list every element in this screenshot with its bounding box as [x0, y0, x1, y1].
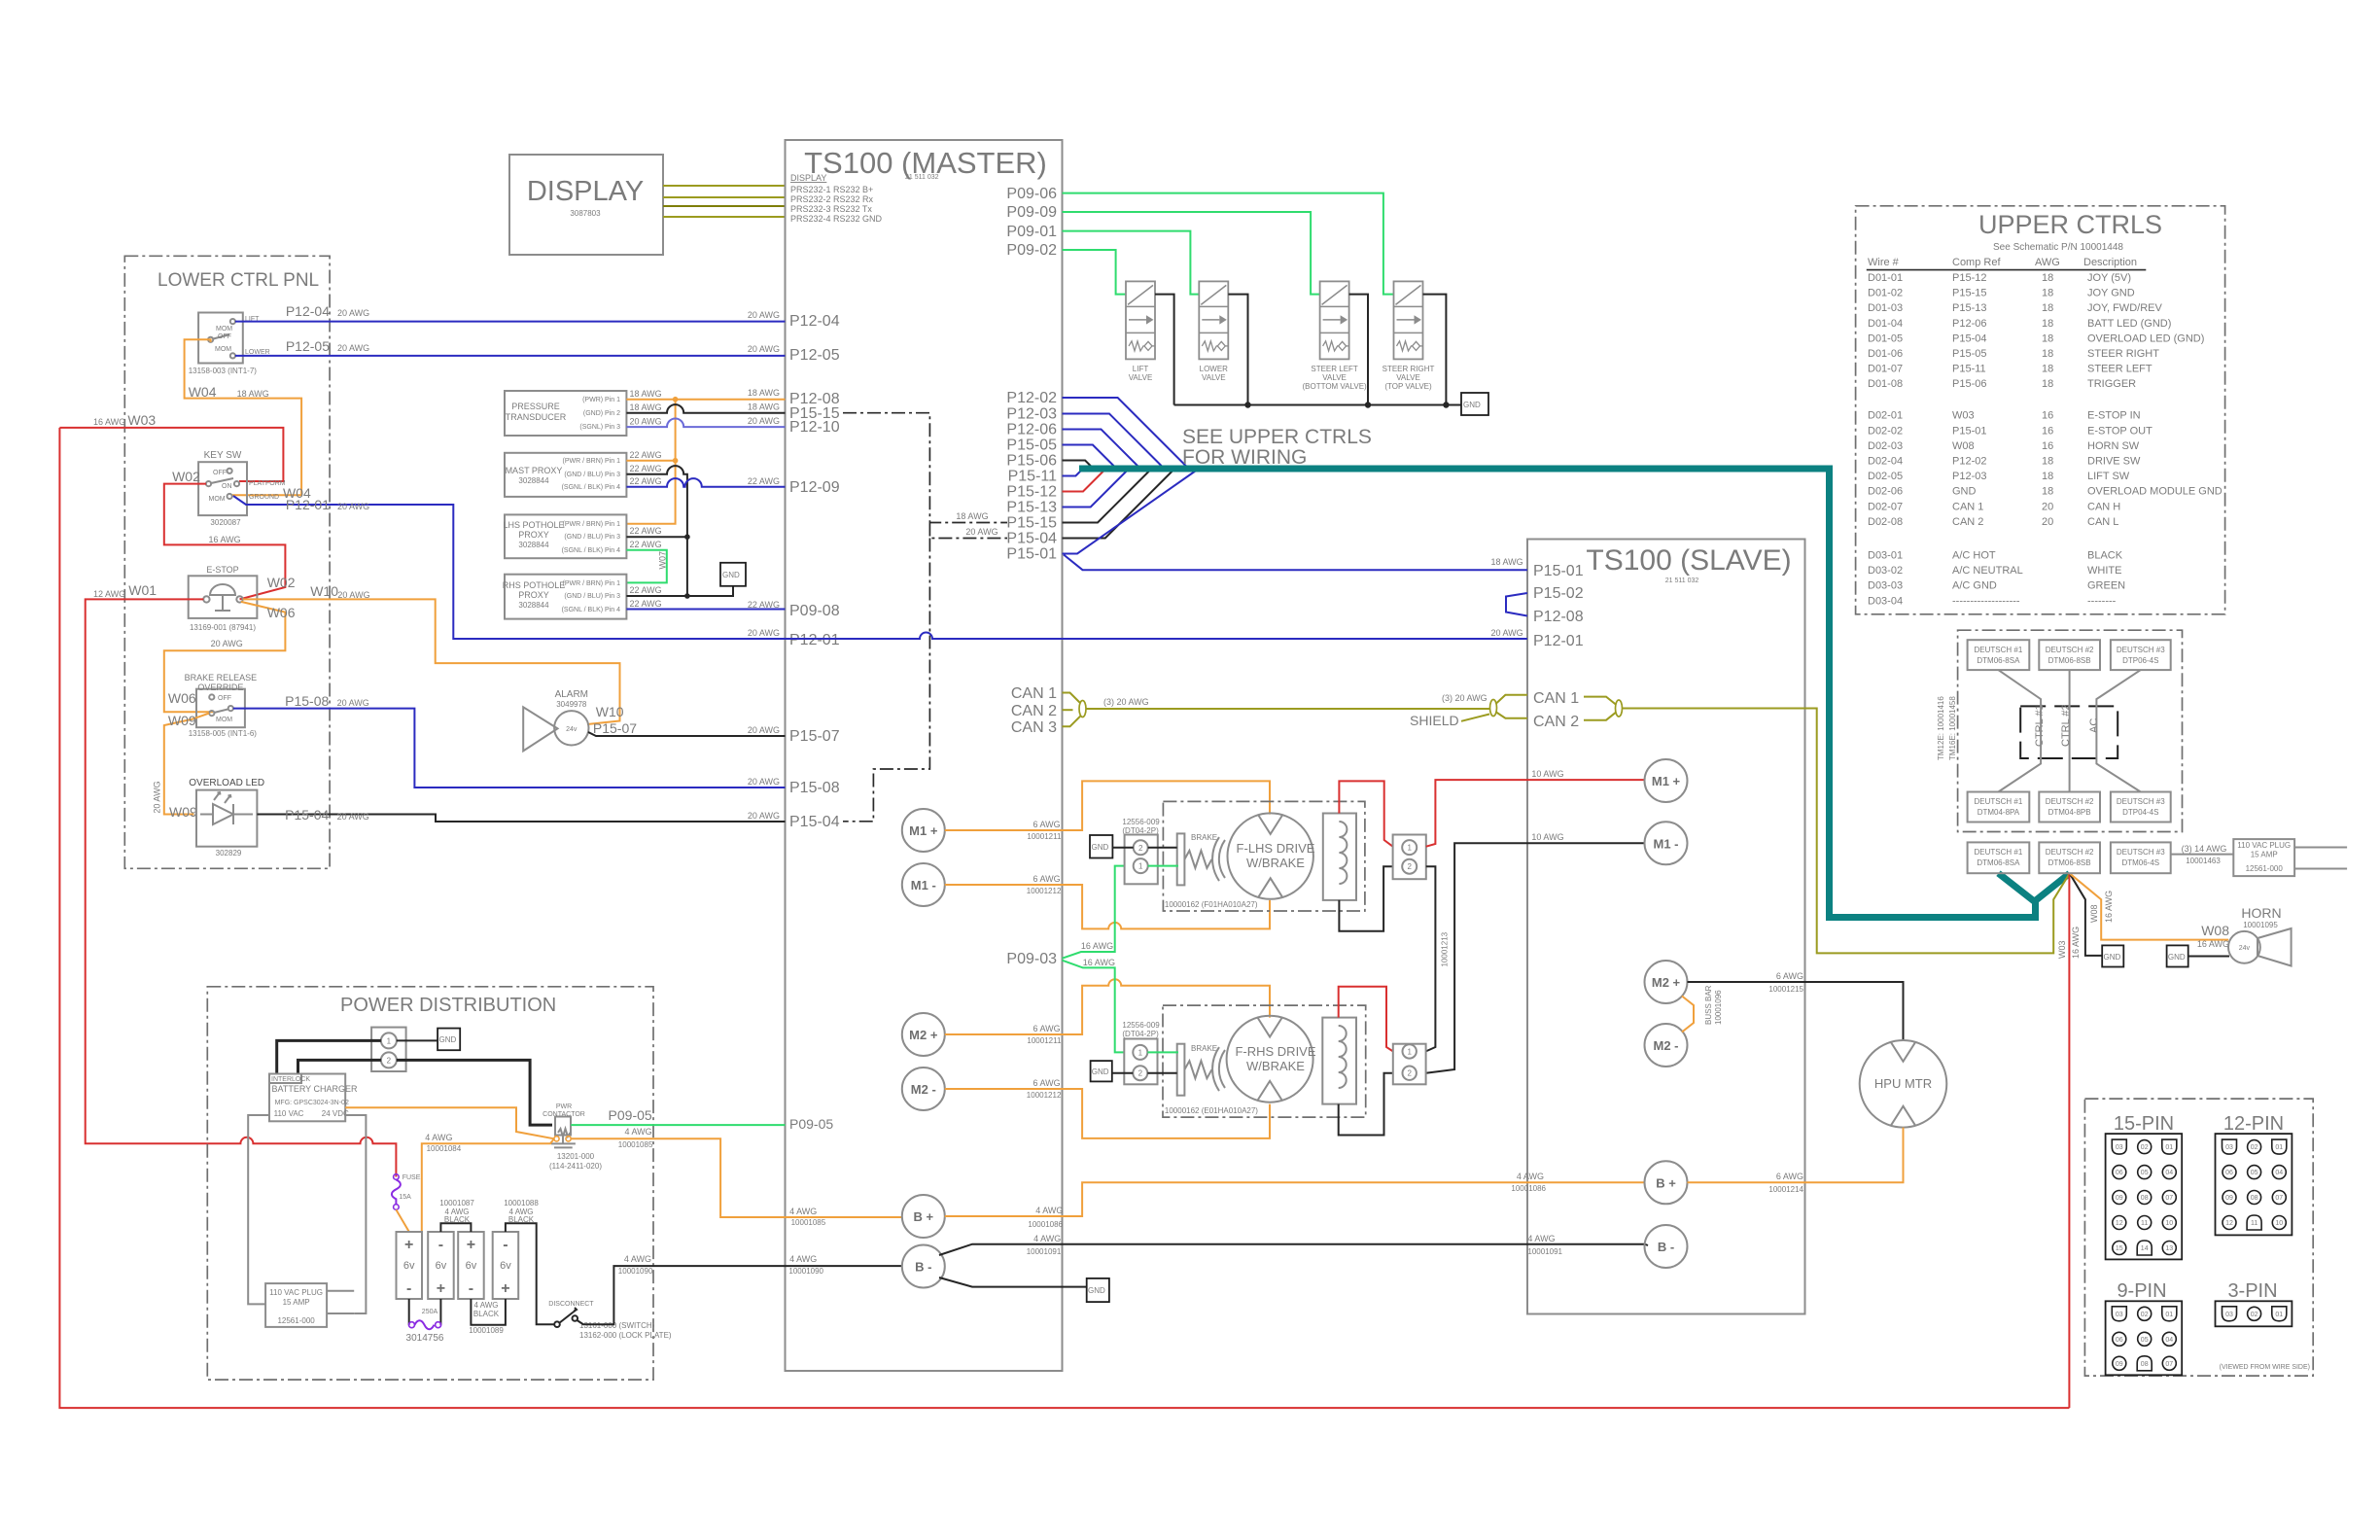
svg-text:2: 2	[1407, 862, 1412, 871]
wire P09-09 green to steer left valve	[1063, 212, 1320, 295]
ground GND horn	[2167, 945, 2188, 966]
wire lhs pin2 black to brake	[1148, 847, 1177, 849]
svg-text:D01-07: D01-07	[1868, 364, 1903, 375]
cable CAN twisted pair marker master	[1079, 701, 1086, 717]
svg-text:20 AWG: 20 AWG	[337, 590, 369, 600]
svg-text:22 AWG: 22 AWG	[630, 526, 662, 536]
svg-text:(PWR) Pin 1: (PWR) Pin 1	[582, 397, 620, 403]
svg-text:6 AWG: 6 AWG	[1033, 1078, 1061, 1088]
svg-text:DEUTSCH #2: DEUTSCH #2	[2046, 646, 2094, 654]
svg-text:TRIGGER: TRIGGER	[2087, 378, 2136, 390]
svg-text:W03: W03	[1952, 410, 1975, 422]
ground GND proxies	[720, 563, 746, 586]
svg-text:3028844: 3028844	[518, 541, 549, 549]
svg-text:18: 18	[2042, 486, 2053, 498]
svg-text:M2 +: M2 +	[909, 1028, 938, 1042]
svg-text:P15-07: P15-07	[593, 720, 637, 736]
svg-text:LIFT: LIFT	[1133, 365, 1149, 373]
svg-text:09: 09	[2225, 1195, 2233, 1202]
svg-text:20 AWG: 20 AWG	[748, 628, 780, 638]
svg-text:18: 18	[2042, 348, 2053, 360]
svg-text:KEY SW: KEY SW	[204, 450, 242, 461]
svg-text:22 AWG: 22 AWG	[630, 585, 662, 595]
fuse F2 250A 3014756	[406, 1299, 444, 1344]
wire W10 orange e-stop to alarm	[243, 599, 620, 724]
horn HORN 10001095	[2228, 905, 2292, 966]
connector RHS output 2pin	[1393, 1044, 1426, 1085]
svg-text:UPPER CTRLS: UPPER CTRLS	[1978, 210, 2162, 239]
svg-text:6v: 6v	[436, 1260, 447, 1272]
wire red lhs winding to connector pin1	[1339, 781, 1392, 846]
pin labels master right harness group	[1006, 390, 1057, 563]
svg-text:CAN L: CAN L	[2087, 516, 2118, 528]
svg-text:4 AWG: 4 AWG	[789, 1254, 817, 1264]
connector DEUTSCH #1 DTM04-8PA bottom	[1968, 792, 2030, 822]
svg-text:A/C GND: A/C GND	[1952, 580, 1997, 592]
terminal M1+ slave	[1645, 759, 1688, 802]
svg-text:--------: --------	[2087, 595, 2117, 607]
svg-text:D03-01: D03-01	[1868, 550, 1903, 562]
svg-text:(SGNL) Pin 3: (SGNL) Pin 3	[579, 424, 620, 431]
svg-text:E-STOP OUT: E-STOP OUT	[2087, 425, 2152, 437]
svg-text:10001084: 10001084	[427, 1144, 462, 1153]
svg-text:13158-003 (INT1-7): 13158-003 (INT1-7)	[189, 367, 258, 375]
svg-text:12556-009: 12556-009	[1122, 818, 1160, 826]
svg-text:F-RHS DRIVE: F-RHS DRIVE	[1235, 1044, 1315, 1059]
estop SW3 E-STOP 13169-001	[189, 565, 258, 632]
svg-text:VALVE: VALVE	[1129, 373, 1153, 382]
svg-text:P15-01: P15-01	[1006, 546, 1057, 563]
svg-text:04: 04	[2275, 1170, 2283, 1176]
svg-text:20 AWG: 20 AWG	[211, 639, 243, 648]
wire orange sensor supply chain vertical	[626, 400, 675, 524]
svg-text:W09: W09	[169, 804, 197, 820]
svg-text:21 511 032: 21 511 032	[1665, 577, 1699, 584]
svg-text:20: 20	[2042, 516, 2053, 528]
svg-text:D02-07: D02-07	[1868, 501, 1903, 512]
svg-text:STEER RIGHT: STEER RIGHT	[2087, 348, 2159, 360]
valve LIFT VALVE	[1126, 281, 1155, 359]
wire black horn to gnd	[2188, 956, 2229, 958]
connector 12-PIN diagram	[2216, 1113, 2292, 1235]
svg-text:6 AWG: 6 AWG	[1033, 874, 1061, 884]
svg-text:6v: 6v	[500, 1260, 511, 1272]
svg-text:01: 01	[2275, 1144, 2283, 1151]
wire orange buss bar M2+ to M2- 10001096	[1682, 997, 1694, 1032]
svg-text:DEUTSCH #1: DEUTSCH #1	[1975, 848, 2023, 857]
terminal M1- master	[902, 863, 945, 906]
sensor PRESSURE TRANSDUCER	[505, 391, 626, 436]
brake LHS	[1177, 833, 1225, 885]
svg-text:(114-2411-020): (114-2411-020)	[549, 1162, 602, 1171]
wire P12-08 orange transducer pwr	[626, 399, 785, 401]
svg-text:3087803: 3087803	[570, 209, 601, 218]
svg-text:18: 18	[2042, 378, 2053, 390]
svg-text:P15-04: P15-04	[1952, 332, 1986, 344]
wire W04 orange from lift switch to key switch	[185, 339, 302, 495]
svg-text:P09-02: P09-02	[1006, 242, 1057, 259]
svg-text:HPU MTR: HPU MTR	[1874, 1076, 1932, 1091]
svg-text:22 AWG: 22 AWG	[630, 599, 662, 609]
svg-text:P15-06: P15-06	[1006, 453, 1057, 470]
connector 9-PIN diagram	[2106, 1280, 2183, 1375]
svg-text:-: -	[503, 1237, 507, 1253]
wire orange B+ slave to HPU 10001214	[1688, 1128, 1904, 1183]
wire W02 red key switch to e-stop	[164, 484, 286, 600]
svg-text:STEER RIGHT: STEER RIGHT	[1382, 365, 1435, 373]
svg-text:DTM04-8PA: DTM04-8PA	[1977, 808, 2020, 817]
svg-text:P15-05: P15-05	[1952, 348, 1986, 360]
svg-text:01: 01	[2275, 1312, 2283, 1318]
svg-text:W08: W08	[1952, 440, 1975, 452]
wire CAN2 olive master chevron	[1063, 709, 1073, 711]
contactor PWR CONTACTOR 13201-000	[542, 1103, 602, 1171]
wire internal dash-dot P15-15 routing	[843, 413, 1007, 822]
svg-text:OVERRIDE: OVERRIDE	[197, 682, 243, 692]
svg-text:20 AWG: 20 AWG	[630, 417, 662, 427]
cable CAN twisted pair marker slave right	[1616, 700, 1623, 717]
pin labels slave CAN	[1533, 690, 1579, 730]
svg-text:MOM: MOM	[216, 717, 232, 723]
svg-text:P15-15: P15-15	[1952, 288, 1986, 299]
svg-text:PWR: PWR	[556, 1103, 572, 1110]
svg-text:TRANSDUCER: TRANSDUCER	[506, 412, 567, 422]
svg-text:20 AWG: 20 AWG	[748, 344, 780, 354]
svg-text:GND: GND	[439, 1035, 457, 1044]
svg-text:D03-02: D03-02	[1868, 565, 1903, 577]
svg-text:JOY, FWD/REV: JOY, FWD/REV	[2087, 302, 2162, 314]
wire red rhs winding to connector pin1	[1339, 987, 1393, 1052]
svg-text:FOR WIRING: FOR WIRING	[1182, 446, 1307, 469]
svg-text:10: 10	[2165, 1220, 2173, 1227]
wire gray link deutsch1 top to bottom	[1998, 670, 2041, 791]
svg-text:P15-02: P15-02	[1533, 585, 1584, 602]
svg-text:18 AWG: 18 AWG	[630, 402, 662, 412]
svg-text:11: 11	[2141, 1220, 2148, 1227]
svg-text:3028844: 3028844	[518, 476, 549, 485]
wire red W03 deutsch2 to bottom rail	[2068, 873, 2070, 1408]
svg-text:P15-12: P15-12	[1006, 484, 1057, 501]
svg-text:W06: W06	[267, 605, 296, 620]
svg-text:TS100 (SLAVE): TS100 (SLAVE)	[1586, 544, 1791, 577]
wire P09-01 green to lower valve	[1063, 231, 1200, 295]
svg-text:(GND / BLU) Pin 3: (GND / BLU) Pin 3	[564, 534, 620, 541]
svg-text:18: 18	[2042, 332, 2053, 344]
svg-text:02: 02	[2141, 1144, 2149, 1151]
svg-text:110 VAC: 110 VAC	[274, 1109, 304, 1118]
svg-text:DTM06-8SA: DTM06-8SA	[1977, 858, 2020, 867]
svg-text:PRESSURE: PRESSURE	[511, 402, 560, 411]
svg-text:15 AMP: 15 AMP	[283, 1298, 310, 1307]
svg-text:W/BRAKE: W/BRAKE	[1246, 1059, 1305, 1073]
svg-text:10001089: 10001089	[469, 1326, 504, 1335]
charger BATTERY CHARGER	[269, 1074, 358, 1122]
brake RHS	[1177, 1044, 1225, 1096]
svg-text:P12-01: P12-01	[1533, 633, 1584, 649]
svg-text:09: 09	[2116, 1361, 2123, 1368]
svg-text:P09-09: P09-09	[1006, 204, 1057, 221]
svg-text:3020087: 3020087	[210, 518, 241, 527]
svg-text:21 511 032: 21 511 032	[905, 174, 939, 181]
ground GND rhs drive	[1091, 1061, 1112, 1081]
connector DEUTSCH #3 DTP04-4S bottom	[2111, 792, 2171, 822]
svg-text:10001211: 10001211	[1027, 832, 1062, 841]
ground GND lhs drive	[1090, 835, 1112, 858]
svg-text:15: 15	[2116, 1245, 2123, 1252]
svg-text:4 AWG: 4 AWG	[1527, 1234, 1555, 1243]
svg-text:OFF: OFF	[218, 333, 231, 340]
wire rhs pin2 black to brake	[1147, 1072, 1176, 1074]
svg-text:TM12E: 10001416: TM12E: 10001416	[1937, 696, 1945, 760]
wire orange W08 deutsch2 to horn	[2070, 873, 2229, 939]
svg-text:OVERLOAD LED (GND): OVERLOAD LED (GND)	[2087, 332, 2204, 344]
svg-text:W10: W10	[596, 704, 624, 719]
svg-text:D01-05: D01-05	[1868, 332, 1903, 344]
svg-text:04: 04	[2165, 1170, 2173, 1176]
svg-text:(PWR / BRN) Pin 1: (PWR / BRN) Pin 1	[562, 458, 620, 465]
svg-text:16 AWG: 16 AWG	[2104, 891, 2114, 923]
plug 110 VAC PLUG 15 AMP 12561-000	[265, 1283, 354, 1327]
svg-text:1: 1	[1138, 862, 1143, 871]
svg-text:W02: W02	[172, 469, 200, 484]
svg-text:D02-08: D02-08	[1868, 516, 1903, 528]
svg-text:P12-05: P12-05	[789, 347, 840, 364]
svg-text:P12-09: P12-09	[789, 479, 840, 496]
wire 10001088 battery4 to disconnect	[506, 1223, 555, 1324]
wire P12-01 blue key switch to master and slave	[233, 496, 1527, 639]
svg-text:D02-01: D02-01	[1868, 410, 1903, 422]
svg-text:P15-04: P15-04	[1006, 531, 1057, 547]
svg-text:250A: 250A	[422, 1309, 438, 1315]
wire P09-06 green to steer right valve	[1063, 193, 1394, 295]
svg-text:16 AWG: 16 AWG	[1081, 941, 1113, 951]
wire orange fuse to battery1	[396, 1209, 408, 1232]
svg-text:13: 13	[2165, 1245, 2173, 1252]
svg-text:M1 +: M1 +	[909, 823, 938, 838]
svg-text:3049978: 3049978	[556, 700, 587, 709]
svg-text:GND: GND	[1092, 843, 1109, 852]
drive F-RHS DRIVE W/BRAKE box	[1163, 1005, 1366, 1117]
svg-text:DEUTSCH #3: DEUTSCH #3	[2117, 646, 2165, 654]
svg-text:OVERLOAD LED: OVERLOAD LED	[189, 778, 264, 788]
svg-text:9-PIN: 9-PIN	[2117, 1280, 2166, 1302]
svg-text:STEER LEFT: STEER LEFT	[2087, 364, 2152, 375]
svg-text:BUSS BAR: BUSS BAR	[1704, 985, 1713, 1025]
svg-text:04: 04	[2165, 1337, 2173, 1344]
svg-text:10001213: 10001213	[1441, 931, 1450, 966]
svg-text:MOM: MOM	[216, 326, 232, 332]
wire orange charger 24vdc to contactor	[345, 1107, 554, 1138]
svg-text:1: 1	[1407, 1047, 1412, 1056]
svg-text:15 AMP: 15 AMP	[2251, 851, 2278, 859]
svg-text:10001096: 10001096	[1714, 990, 1723, 1025]
svg-text:CAN 1: CAN 1	[1533, 690, 1579, 707]
wire black B- master to gnd	[939, 1277, 1087, 1287]
ground GND valves	[1461, 393, 1488, 415]
connector DEUTSCH #3 DTP06-4S top	[2111, 640, 2171, 670]
svg-text:AC: AC	[2088, 718, 2100, 733]
svg-text:DEUTSCH #2: DEUTSCH #2	[2046, 797, 2094, 806]
svg-text:F-LHS DRIVE: F-LHS DRIVE	[1237, 841, 1315, 856]
svg-text:2: 2	[1138, 1069, 1143, 1078]
svg-text:W08: W08	[2201, 923, 2229, 938]
wire red lhs pin1 to slave M1+ 10 AWG	[1426, 780, 1645, 847]
svg-text:10001088: 10001088	[504, 1199, 539, 1207]
wire P15-15 black chevron	[1063, 469, 1152, 523]
svg-text:BLACK: BLACK	[2087, 550, 2123, 562]
wire blue jumper P15-02 to P12-08	[1506, 593, 1527, 616]
wire harness teal to upper ctrls	[1079, 469, 2036, 918]
svg-text:CTRL #1: CTRL #1	[2034, 704, 2046, 747]
svg-text:P12-06: P12-06	[1006, 422, 1057, 438]
terminal B+ master	[902, 1195, 945, 1238]
svg-text:6v: 6v	[466, 1260, 477, 1272]
svg-text:W03: W03	[127, 412, 156, 428]
pin labels master right P09 group	[1006, 186, 1057, 259]
svg-text:(3) 20 AWG: (3) 20 AWG	[1442, 693, 1487, 703]
svg-text:110 VAC PLUG: 110 VAC PLUG	[2237, 841, 2291, 850]
svg-text:15-PIN: 15-PIN	[2114, 1113, 2174, 1135]
svg-text:1: 1	[1407, 844, 1412, 853]
wire slave CAN1 CAN2 olive merge right	[1584, 697, 1616, 720]
svg-text:22 AWG: 22 AWG	[630, 450, 662, 460]
svg-text:3-PIN: 3-PIN	[2227, 1280, 2277, 1302]
wire P12-04 blue lift	[235, 321, 786, 323]
motor M2 F-RHS circle	[1227, 1016, 1316, 1102]
svg-text:16 AWG: 16 AWG	[2197, 939, 2229, 949]
plug 110 VAC PLUG 15 AMP right	[2233, 839, 2347, 876]
battery B2 6v	[428, 1232, 454, 1299]
svg-text:P15-08: P15-08	[285, 693, 329, 709]
svg-text:302829: 302829	[216, 849, 242, 857]
svg-text:DTM06-8SB: DTM06-8SB	[2048, 656, 2091, 665]
wire P12-03 blue chevron	[1063, 414, 1165, 470]
wire black M2+ to HPU 10001215	[1688, 982, 1904, 1040]
svg-text:10 AWG: 10 AWG	[1531, 832, 1563, 842]
svg-text:DTM06-8SB: DTM06-8SB	[2048, 858, 2091, 867]
svg-text:MAST PROXY: MAST PROXY	[506, 466, 563, 475]
svg-text:-: -	[406, 1280, 411, 1297]
wire black disconnect to B- 10001090	[577, 1266, 903, 1324]
svg-text:13158-005 (INT1-6): 13158-005 (INT1-6)	[189, 729, 258, 738]
wire black lhs winding to connector pin2	[1339, 866, 1392, 931]
svg-text:BATTERY CHARGER: BATTERY CHARGER	[272, 1084, 359, 1094]
svg-text:02: 02	[2251, 1312, 2258, 1318]
svg-text:D02-06: D02-06	[1868, 486, 1903, 498]
svg-text:AWG: AWG	[2035, 257, 2060, 268]
svg-text:10001091: 10001091	[1527, 1247, 1562, 1256]
svg-text:BRAKE: BRAKE	[1191, 1044, 1217, 1053]
wire black rhs winding to connector pin2	[1339, 1073, 1393, 1136]
svg-text:P09-03: P09-03	[1006, 951, 1057, 967]
wire P15-04 black overload led to master	[257, 815, 785, 822]
svg-text:INTERLOCK: INTERLOCK	[271, 1076, 310, 1083]
svg-text:(DT04-2P): (DT04-2P)	[1122, 1030, 1159, 1038]
wire lhs proxy pin3 black	[626, 536, 687, 538]
svg-text:B +: B +	[914, 1209, 934, 1224]
svg-text:E-STOP IN: E-STOP IN	[2087, 410, 2141, 422]
battery B4 6v	[493, 1232, 519, 1299]
svg-text:+: +	[437, 1280, 445, 1297]
svg-text:07: 07	[2275, 1195, 2283, 1202]
svg-text:D02-03: D02-03	[1868, 440, 1903, 452]
svg-text:(GND / BLU) Pin 3: (GND / BLU) Pin 3	[564, 593, 620, 600]
connector DEUTSCH #2 DTM06-8SB harness row	[2039, 842, 2100, 873]
connector J1 charger interlock	[371, 1028, 406, 1071]
svg-text:GND: GND	[2104, 953, 2121, 962]
winding LHS field coil	[1323, 814, 1356, 900]
svg-text:10001212: 10001212	[1027, 1091, 1062, 1100]
svg-text:06: 06	[2116, 1170, 2123, 1176]
svg-text:W07: W07	[658, 551, 668, 570]
box CTRL dashed	[2020, 704, 2117, 758]
connector LHS deutsch 12556-009 DT04-2P	[1122, 818, 1160, 884]
svg-text:16 AWG: 16 AWG	[1083, 958, 1115, 967]
svg-text:D01-03: D01-03	[1868, 302, 1903, 314]
wire PRS232-3 dark olive	[663, 205, 786, 207]
svg-text:P15-04: P15-04	[789, 814, 840, 830]
svg-text:P12-01: P12-01	[789, 632, 840, 648]
svg-text:24 VDC: 24 VDC	[322, 1109, 349, 1118]
svg-text:06: 06	[2225, 1170, 2233, 1176]
connector 15-PIN diagram	[2106, 1113, 2183, 1259]
svg-text:18 AWG: 18 AWG	[956, 511, 988, 521]
switch DISCONNECT 13161-000	[548, 1301, 594, 1327]
valve STEER RIGHT VALVE (TOP VALVE)	[1394, 281, 1423, 359]
connector LHS output 2pin	[1393, 835, 1426, 880]
wire lower valve return black	[1228, 295, 1247, 405]
svg-text:PRS232-4 RS232 GND: PRS232-4 RS232 GND	[790, 214, 883, 224]
svg-text:GND: GND	[2168, 953, 2186, 962]
svg-text:18 AWG: 18 AWG	[748, 388, 780, 398]
svg-text:20 AWG: 20 AWG	[748, 811, 780, 821]
terminal M2+ slave	[1645, 961, 1688, 1003]
svg-text:DTM04-8PB: DTM04-8PB	[2048, 808, 2091, 817]
svg-text:OVERLOAD MODULE GND: OVERLOAD MODULE GND	[2087, 486, 2222, 498]
svg-text:16 AWG: 16 AWG	[93, 417, 125, 427]
svg-text:E-STOP: E-STOP	[206, 565, 238, 575]
svg-text:P09-06: P09-06	[1006, 186, 1057, 202]
svg-text:6 AWG: 6 AWG	[1033, 1024, 1061, 1033]
svg-text:HORN: HORN	[2241, 905, 2281, 921]
svg-text:P12-02: P12-02	[1006, 390, 1057, 406]
panel POWER DISTRIBUTION box	[207, 987, 653, 1380]
wire green P09-05 contactor to master	[571, 1124, 785, 1126]
wire blue P15-01 master to slave 18AWG	[1064, 555, 1527, 571]
svg-text:WHITE: WHITE	[2087, 565, 2121, 577]
wire P15-06 black chevron	[1063, 461, 1094, 470]
svg-text:D01-06: D01-06	[1868, 348, 1903, 360]
svg-text:10001087: 10001087	[439, 1199, 474, 1207]
svg-text:D01-08: D01-08	[1868, 378, 1903, 390]
svg-text:GND: GND	[722, 571, 740, 579]
svg-text:08: 08	[2141, 1361, 2149, 1368]
svg-text:(SGNL / BLK) Pin 4: (SGNL / BLK) Pin 4	[562, 484, 621, 491]
svg-text:PROXY: PROXY	[518, 590, 549, 600]
svg-text:20 AWG: 20 AWG	[337, 343, 369, 353]
svg-text:W04: W04	[189, 384, 217, 400]
svg-text:D03-04: D03-04	[1868, 595, 1903, 607]
controller U1 TS100 (MASTER) box	[786, 140, 1063, 1371]
cable CAN twisted pair marker slave side	[1490, 700, 1497, 717]
wire rhs pin1 green to brake	[1147, 1051, 1178, 1053]
svg-text:18: 18	[2042, 364, 2053, 375]
svg-text:10 AWG: 10 AWG	[1531, 769, 1563, 779]
wire 10001089 battery3 to battery4 link	[471, 1299, 506, 1325]
wire P12-10 blue transducer sgnl	[626, 419, 785, 428]
svg-text:GROUND: GROUND	[249, 494, 279, 501]
junction valves bus	[1244, 402, 1250, 407]
